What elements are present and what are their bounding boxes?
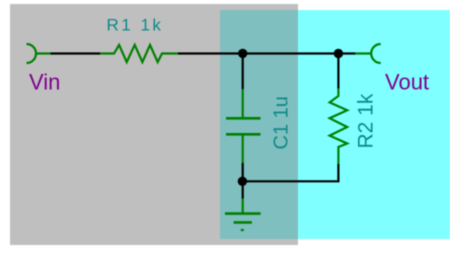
svg-text:Vin: Vin: [29, 69, 60, 94]
node G junction dot: [238, 177, 247, 186]
node B junction dot: [238, 49, 247, 58]
svg-text:R1 1k: R1 1k: [107, 16, 164, 35]
svg-text:C1 1u: C1 1u: [270, 96, 292, 149]
port terminal Vin: [27, 44, 37, 63]
wire node G to R2 bottom (black): [242, 164, 338, 181]
ground: [225, 199, 261, 231]
wire node D to Vout lead (black): [338, 52, 355, 54]
wire R1 to node B (black): [178, 52, 243, 54]
highlight rectangle (gray selection region): [10, 4, 299, 245]
resistor R2: [330, 89, 348, 164]
wire node B to node D (black): [243, 52, 339, 54]
wire Vout lead (green): [355, 52, 371, 54]
svg-text:Vout: Vout: [385, 70, 429, 95]
wire R2 top to node D (black): [337, 54, 339, 89]
wire node B down to C1 (black): [242, 54, 244, 90]
wire C1 to node G (black): [242, 163, 244, 182]
wire node G down to ground (black): [242, 181, 244, 198]
capacitor C1: [226, 89, 261, 163]
port terminal Vout: [371, 44, 381, 63]
highlight rectangle (cyan selection region): [220, 10, 450, 239]
wire Vin to R1 (black): [51, 52, 101, 54]
wire Vin lead (green): [36, 52, 51, 54]
node D junction dot: [334, 49, 343, 58]
svg-text:R2 1k: R2 1k: [354, 93, 377, 148]
resistor R1: [100, 45, 178, 62]
